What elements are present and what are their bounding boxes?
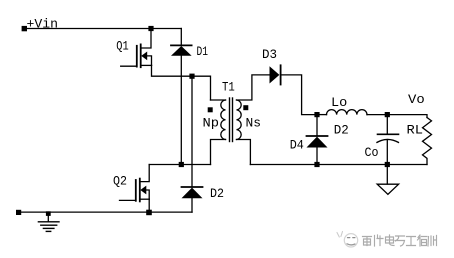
diode D2 (clamp) [182, 187, 203, 212]
diode D3 (rectifier) [270, 65, 318, 114]
ground (left earth symbol) [38, 211, 59, 231]
node junction D3/D4/Lo [314, 112, 319, 117]
gate lead [121, 65, 137, 67]
watermark logo [337, 232, 358, 248]
svg-text:RL: RL [407, 122, 424, 137]
D2 triangle [182, 188, 203, 199]
D4 cathode bar [307, 135, 328, 137]
drain lead [140, 165, 149, 182]
transistor Q2 [120, 165, 150, 213]
svg-text:D2: D2 [334, 123, 349, 138]
gate lead [120, 199, 136, 201]
D4 anode lead [316, 148, 318, 165]
Co bottom lead [386, 140, 388, 165]
wire primary bottom to Q2 drain [149, 164, 210, 166]
Co top plate [378, 133, 399, 135]
node junction Q2 source / ground rail [146, 210, 152, 216]
inductor Lo [317, 110, 387, 115]
node Np polarity dot [208, 107, 213, 112]
D3 triangle [270, 66, 280, 83]
capacitor Co [377, 115, 399, 165]
secondary bottom lead [237, 140, 251, 165]
D3 cathode wire to Lo junction [281, 75, 317, 115]
body arrow [141, 52, 147, 61]
primary bottom lead [211, 140, 226, 165]
ground (right chassis symbol) [377, 165, 398, 195]
wire top rail +Vin to D1 top [24, 28, 181, 30]
primary top lead [211, 99, 226, 101]
core line right [232, 98, 234, 142]
Co top lead [386, 115, 388, 135]
transformer T1 [211, 75, 270, 165]
diode D4 (freewheel) [307, 115, 328, 165]
wire Q1 drain [141, 29, 151, 49]
node +Vin terminal [22, 26, 27, 31]
node junction Lo/Co/Vo [385, 112, 390, 117]
node Ns polarity dot [243, 105, 248, 110]
node ground-left terminal [16, 210, 21, 215]
node junction Co bottom / bottom rail [385, 162, 390, 167]
secondary winding Ns [237, 100, 242, 140]
wire output bottom rail [250, 164, 427, 166]
body arrow [140, 186, 146, 195]
svg-text:D4: D4 [290, 137, 304, 152]
primary winding Np [221, 100, 226, 140]
svg-text:D3: D3 [262, 47, 277, 62]
wire Vo top to RL [387, 115, 427, 118]
D4 triangle [307, 137, 328, 148]
svg-text:Vo: Vo [408, 92, 425, 107]
svg-text:Q2: Q2 [113, 173, 127, 188]
wire Q1 source to primary top [152, 65, 211, 100]
source lead down [148, 199, 150, 212]
diode D1 [171, 29, 192, 165]
transistor Q1 [121, 44, 152, 67]
node junction D4 anode / bottom rail [314, 162, 319, 167]
watermark text 硬件电子工程师 [363, 235, 437, 246]
svg-text:Lo: Lo [331, 95, 347, 110]
D1 anode lead down [180, 56, 182, 165]
channel bar [139, 179, 141, 202]
Co curved plate [377, 139, 398, 142]
svg-text:D1: D1 [197, 44, 209, 59]
wire bottom ground rail [19, 211, 193, 213]
D1 cathode bar [171, 44, 192, 46]
channel bar [140, 44, 142, 67]
svg-text:Ns: Ns [246, 115, 262, 130]
gate bar [136, 46, 138, 67]
resistor RL [423, 118, 432, 165]
D4 cathode lead [316, 115, 318, 136]
node junction Vin/Q1 drain [148, 26, 153, 31]
node junction Q1 source / D2 cathode feed [189, 74, 194, 79]
source stub [140, 198, 149, 200]
D3 cathode bar [280, 65, 282, 84]
source stub [141, 64, 152, 66]
svg-text:T1: T1 [222, 80, 235, 95]
D1 cathode lead from top rail [180, 29, 182, 46]
body/source tie [147, 56, 152, 66]
svg-text:D2: D2 [210, 186, 224, 201]
node junction D1 anode / primary bottom [179, 162, 184, 167]
gate bar [135, 180, 137, 201]
D2 anode lead [191, 198, 193, 212]
core line left [229, 98, 231, 142]
wire junction down to D2 [191, 76, 193, 187]
D1 triangle [171, 46, 192, 56]
svg-text:Np: Np [203, 115, 220, 130]
svg-text:Co: Co [365, 145, 379, 160]
svg-text:Q1: Q1 [116, 38, 128, 53]
secondary top lead [237, 75, 270, 100]
D2 cathode bar [182, 186, 203, 188]
body/source tie [146, 190, 149, 199]
